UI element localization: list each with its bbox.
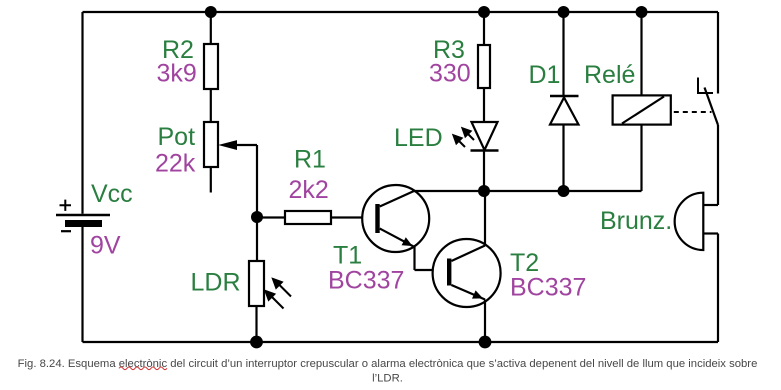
svg-text:Pot: Pot: [158, 123, 196, 151]
svg-text:R1: R1: [294, 146, 326, 174]
svg-text:T1: T1: [333, 242, 362, 270]
svg-text:Vcc: Vcc: [91, 180, 133, 208]
svg-text:2k2: 2k2: [289, 176, 329, 204]
svg-text:l’LDR.: l’LDR.: [372, 372, 403, 384]
svg-text:Fig. 8.24. Esquema electrònic: Fig. 8.24. Esquema electrònic del circui…: [18, 358, 758, 370]
svg-text:330: 330: [429, 60, 471, 88]
svg-text:LDR: LDR: [191, 269, 241, 297]
svg-text:22k: 22k: [155, 150, 196, 178]
svg-text:9V: 9V: [90, 232, 121, 260]
svg-text:BC337: BC337: [510, 274, 586, 302]
svg-text:Relé: Relé: [584, 61, 635, 89]
svg-text:BC337: BC337: [328, 267, 404, 295]
svg-text:LED: LED: [394, 124, 443, 152]
svg-text:D1: D1: [529, 61, 561, 89]
svg-text:3k9: 3k9: [157, 60, 197, 88]
svg-text:Brunz.: Brunz.: [600, 207, 672, 235]
